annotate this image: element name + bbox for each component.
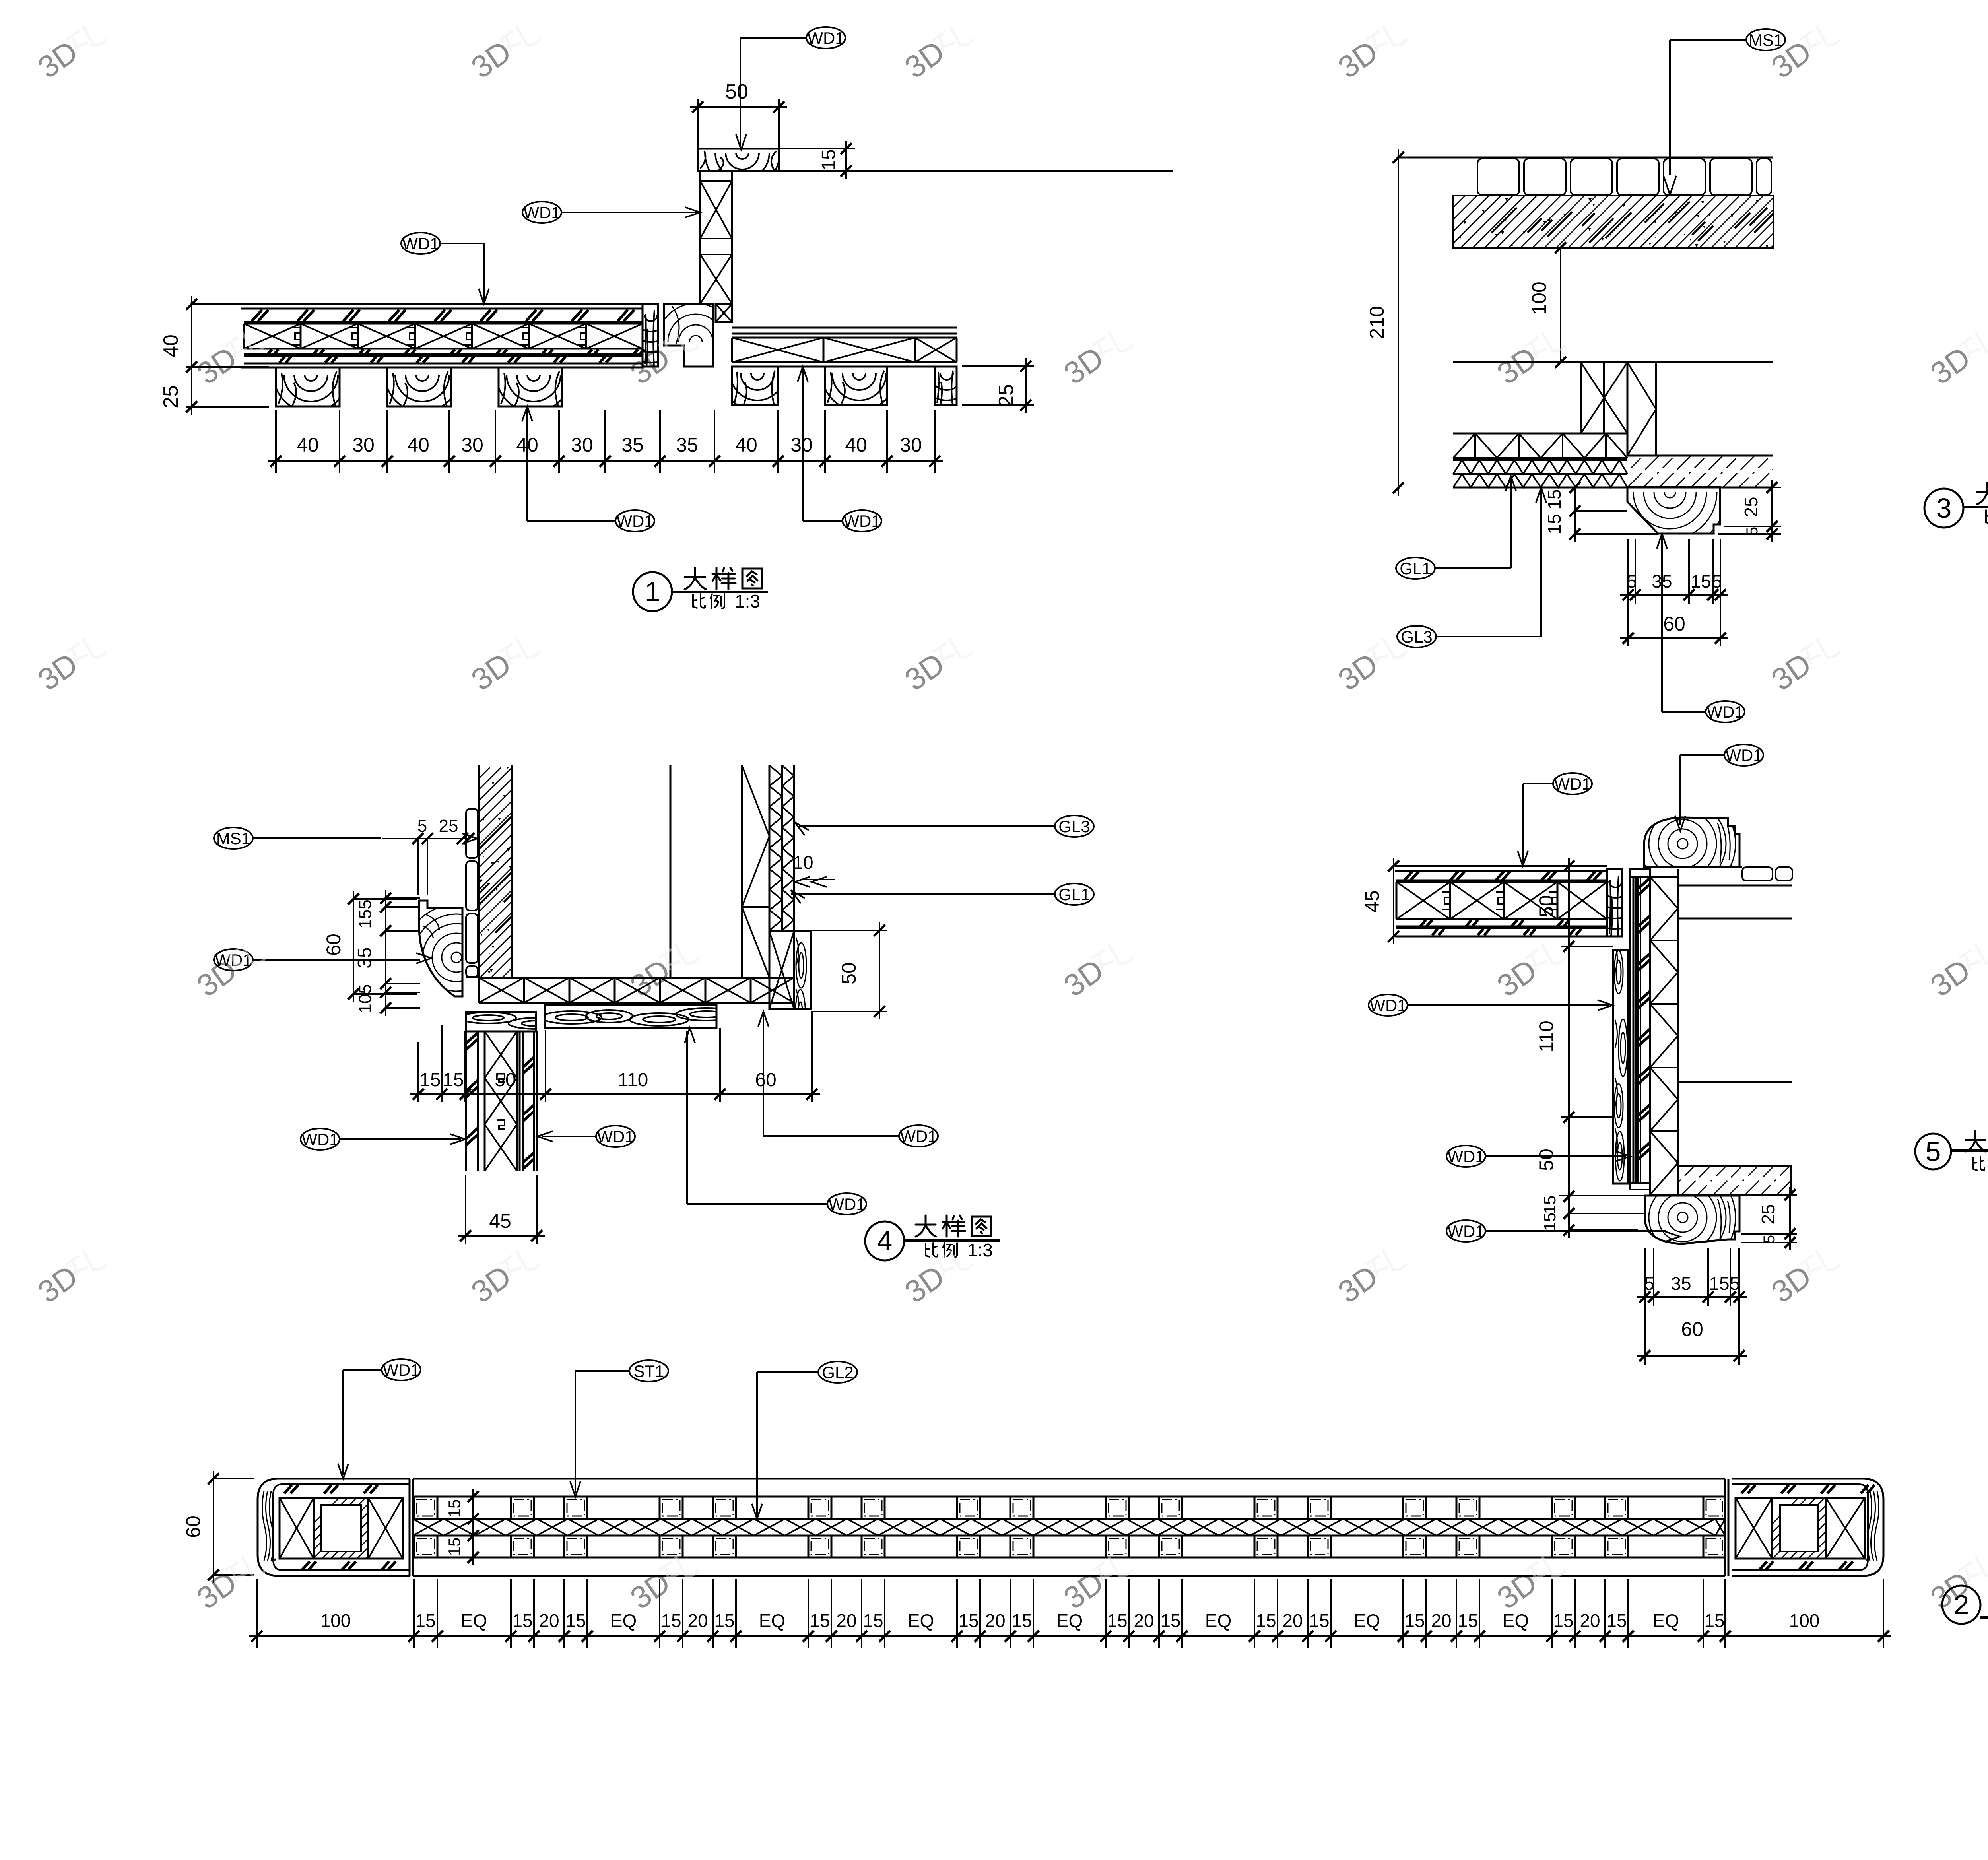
svg-text:15: 15 [1160,1610,1180,1631]
svg-text:25: 25 [159,385,182,408]
svg-text:35: 35 [354,947,375,968]
tile strip MS1 [466,809,478,858]
title circle 1 [633,572,672,611]
svg-text:EQ: EQ [1205,1610,1231,1631]
svg-text:EQ: EQ [461,1610,487,1631]
svg-text:15: 15 [661,1610,681,1631]
svg-text:40: 40 [159,334,182,357]
svg-text:4: 4 [877,1225,893,1256]
svg-text:WD1: WD1 [1706,703,1743,721]
label WD1 batten [615,510,654,532]
vertical post WD1 [699,171,701,304]
svg-text:WD1: WD1 [1554,775,1591,793]
svg-text:40: 40 [735,434,757,456]
svg-text:30: 30 [461,434,483,456]
svg-text:60: 60 [1663,613,1685,635]
label WD1 cap [806,27,845,49]
svg-text:WD1: WD1 [382,1361,419,1379]
svg-text:50: 50 [1535,895,1557,917]
svg-text:50: 50 [725,80,748,103]
svg-text:WD1: WD1 [597,1127,634,1146]
label WD1 floor [401,233,440,254]
svg-text:15: 15 [1309,1610,1329,1631]
svg-text:100: 100 [1789,1610,1820,1631]
svg-text:5: 5 [1627,571,1637,592]
left lower boards [268,349,644,354]
svg-text:60: 60 [755,1070,776,1091]
svg-text:30: 30 [790,434,813,456]
label WD1 post [522,202,561,223]
X blocking box [1581,362,1627,433]
svg-text:WD1: WD1 [807,29,844,47]
svg-text:110: 110 [618,1070,648,1091]
svg-text:WD1: WD1 [828,1195,865,1213]
svg-text:20: 20 [539,1610,559,1631]
right blocking X band [732,337,957,339]
stone base band [1679,1166,1791,1195]
ceiling tiles [1742,867,1773,881]
svg-text:15: 15 [1704,1610,1724,1631]
left blocking X band [244,323,643,325]
label WD1 molding top [1724,744,1763,766]
dim 15 15 rows [472,1489,474,1565]
svg-text:5: 5 [1743,527,1761,536]
label WD1 shelf [827,1193,866,1215]
svg-text:10: 10 [793,852,813,873]
svg-text:50: 50 [1535,1149,1557,1171]
framing column right [741,765,743,977]
post base X block [716,304,732,322]
dim 25 5 right [1741,1194,1797,1196]
title circle 4 [865,1221,904,1260]
svg-text:GL3: GL3 [1058,817,1090,836]
mortar bed hatch [1453,196,1773,248]
svg-text:15: 15 [863,1610,883,1631]
svg-text:20: 20 [1580,1610,1600,1631]
svg-text:100: 100 [320,1610,351,1631]
glass core GL2 [413,1518,1725,1520]
title text 1 [685,576,705,578]
svg-text:WD1: WD1 [1369,996,1406,1015]
dim 40 left [192,303,241,305]
title circle 2 [1942,1586,1980,1624]
svg-text:WD1: WD1 [900,1127,937,1146]
svg-text:50: 50 [495,1070,516,1091]
svg-text:25: 25 [439,816,458,836]
svg-text:EQ: EQ [908,1610,934,1631]
dim 50 right [811,930,887,931]
right assembly top lines [732,327,957,329]
svg-text:WD1: WD1 [843,512,880,530]
svg-text:155: 155 [355,899,375,928]
batten support line [241,367,643,369]
left cap blocking X 2 [368,1498,403,1559]
dim 50 cap [697,99,699,149]
svg-text:15: 15 [1404,1610,1425,1631]
label WD1 molding [214,949,253,971]
separator [409,1479,411,1576]
glass felt strip [1640,877,1641,1183]
svg-text:15: 15 [1691,571,1711,592]
svg-text:60: 60 [1681,1318,1703,1340]
dim 210 [1398,149,1399,496]
svg-text:EQ: EQ [1653,1610,1679,1631]
bottom dim chain 15 15 50 110 60 [417,1042,419,1102]
svg-text:40: 40 [516,434,538,456]
label MS1 [214,827,253,849]
svg-text:15: 15 [1544,514,1565,534]
label WD1 wall left [301,1128,340,1150]
right cap blocking X 2 [1826,1498,1865,1559]
svg-text:50: 50 [838,962,860,984]
svg-text:5: 5 [1761,1235,1778,1244]
svg-text:GL2: GL2 [822,1363,853,1382]
left cap blocking X [280,1498,314,1559]
svg-text:15: 15 [1540,1213,1559,1231]
svg-text:15: 15 [810,1610,830,1631]
dim 60 [1627,604,1629,646]
right cap blocking X [1736,1498,1772,1559]
upper line [1453,361,1773,363]
dim 10 [802,879,835,880]
svg-text:40: 40 [407,434,429,456]
bottom dimension chain [256,1579,258,1648]
masonry wall [478,765,480,977]
svg-text:3: 3 [1936,493,1952,524]
stud column [1649,869,1651,1195]
svg-text:30: 30 [352,434,375,456]
svg-text:WD1: WD1 [523,203,560,222]
rail body lines [413,1478,1725,1480]
left arm lower boards [1420,920,1569,926]
dim 5 25 [382,838,470,839]
svg-text:60: 60 [182,1516,204,1538]
svg-text:60: 60 [322,934,345,956]
svg-text:EQ: EQ [759,1610,785,1631]
title text 5 [1966,1139,1985,1141]
svg-text:EQ: EQ [1354,1610,1380,1631]
dim 15 cap [779,148,855,149]
label GL1 [1055,883,1094,905]
label WD1 base [1446,1220,1485,1242]
svg-text:5: 5 [1712,571,1722,592]
left arm top board [1395,865,1607,867]
svg-text:20: 20 [1431,1610,1451,1631]
svg-text:WD1: WD1 [402,234,439,253]
svg-text:25: 25 [995,384,1018,407]
svg-text:5: 5 [1644,1273,1654,1294]
label WD1 panel [1369,994,1408,1016]
svg-text:1:3: 1:3 [967,1240,993,1260]
dim 25 5 right of block [1724,487,1781,488]
svg-text:5: 5 [417,816,427,836]
svg-text:15: 15 [818,149,839,170]
svg-text:EQ: EQ [1503,1610,1529,1631]
label WD1 wall right [596,1126,635,1147]
bottom blocking band [479,977,794,979]
watermark pattern (decorative, faint) [31,16,110,85]
label WD1 strip [1446,1146,1485,1167]
lower wall panels WD1 [465,1031,467,1171]
steel tube right ST1 [1772,1498,1826,1559]
stone band [1627,455,1773,457]
bottom dimension chain [275,410,277,473]
label GL3 [1397,626,1436,647]
dim 100 [1560,248,1561,362]
svg-text:WD1: WD1 [1725,746,1762,765]
svg-text:15: 15 [445,1499,464,1518]
truss band [1453,433,1627,435]
svg-text:35: 35 [1671,1273,1691,1294]
svg-text:40: 40 [297,434,319,456]
dim 60 [1644,1306,1646,1365]
svg-text:EQ: EQ [610,1610,637,1631]
svg-text:20: 20 [1134,1610,1154,1631]
svg-text:MS1: MS1 [1749,31,1783,49]
svg-text:20: 20 [687,1610,708,1631]
right wood end cap WD1 [1732,1479,1883,1576]
svg-text:WD1: WD1 [301,1130,338,1149]
svg-text:1:3: 1:3 [735,591,760,612]
left plywood top board WD1 [241,303,643,305]
svg-text:20: 20 [1282,1610,1303,1631]
label MS1 [1746,29,1785,50]
gypsum board GL3 [1453,473,1627,475]
svg-text:15: 15 [1458,1610,1478,1631]
svg-text:15: 15 [1107,1610,1127,1631]
svg-text:105: 105 [355,984,375,1013]
svg-text:15: 15 [1544,489,1565,509]
tile row MS1 [1477,159,1519,195]
svg-text:15: 15 [445,1538,464,1556]
label WD1 [382,1359,421,1380]
label ST1 [629,1360,668,1382]
dim 15 15 left of block [1574,487,1576,542]
svg-text:15: 15 [714,1610,734,1631]
svg-text:15: 15 [443,1070,464,1091]
svg-text:35: 35 [676,434,698,456]
svg-text:15: 15 [1540,1196,1559,1214]
bottom dims 5 35 15 5 [1627,539,1629,604]
svg-text:1: 1 [645,576,660,607]
label WD1 top [1553,773,1592,794]
ceiling line [732,170,1173,172]
svg-text:15: 15 [512,1610,532,1631]
svg-text:15: 15 [1011,1610,1032,1631]
svg-text:15: 15 [419,1070,441,1091]
gypsum strips GL [769,765,771,930]
bottom dims 5 35 15 5 [1644,1248,1646,1306]
furring strip [1630,869,1650,877]
steel tube left ST1 [314,1498,368,1559]
svg-text:35: 35 [621,434,644,456]
svg-text:15: 15 [1606,1610,1627,1631]
label GL1 [1396,557,1435,579]
svg-text:5: 5 [1926,1136,1941,1167]
svg-text:25: 25 [1741,497,1761,517]
label GL2 [818,1361,857,1383]
svg-text:WD1: WD1 [1447,1147,1484,1166]
datum line [1397,157,1773,159]
label GL3 [1055,815,1094,837]
label WD1 right assembly [843,510,881,532]
svg-text:15: 15 [415,1610,435,1631]
svg-text:GL1: GL1 [1058,885,1090,904]
X block under gypsum [769,931,794,1009]
left wood end cap WD1 [258,1479,410,1576]
dim 45 [465,1175,466,1244]
svg-text:ST1: ST1 [633,1362,664,1380]
label WD1 blocking [899,1125,938,1147]
svg-text:20: 20 [985,1610,1005,1631]
framing column [1627,362,1629,456]
svg-text:20: 20 [836,1610,856,1631]
svg-text:110: 110 [1535,1021,1557,1052]
svg-text:GL1: GL1 [1400,559,1431,578]
bottom line [1453,487,1773,489]
separator right [1724,1479,1726,1576]
wall face lines [1678,918,1792,920]
svg-text:15: 15 [565,1610,586,1631]
svg-text:45: 45 [1361,890,1383,913]
svg-text:25: 25 [1758,1204,1778,1224]
dim 45 [1393,858,1394,944]
svg-text:WD1: WD1 [616,512,653,530]
title text 4 [916,1224,936,1226]
svg-text:15: 15 [1709,1273,1729,1294]
svg-text:40: 40 [845,434,867,456]
gypsum board GL1 [1453,459,1627,461]
svg-text:15: 15 [1256,1610,1276,1631]
svg-text:15: 15 [1553,1610,1573,1631]
title circle 3 [1924,489,1963,528]
title circle 5 [1915,1134,1951,1169]
svg-text:MS1: MS1 [216,829,250,848]
svg-text:GL3: GL3 [1401,627,1432,646]
svg-text:45: 45 [489,1210,511,1232]
dim 60 left [213,1471,214,1583]
svg-text:WD1: WD1 [1447,1222,1484,1241]
wood blocks rows [414,1497,437,1519]
svg-text:30: 30 [900,434,922,456]
dim 60 left [353,891,354,1002]
label WD1 [1706,701,1745,722]
dim 25 right [962,365,1034,367]
dim chain 155/35/105 [385,890,386,1016]
dim chain 50 110 50 15 15 [1568,858,1570,1238]
svg-text:210: 210 [1366,306,1388,339]
svg-text:5: 5 [1730,1273,1740,1294]
svg-text:30: 30 [571,434,593,456]
left arm blocking [1396,881,1607,883]
svg-text:15: 15 [958,1610,978,1631]
svg-text:100: 100 [1528,282,1550,315]
niche right wall edge [670,765,672,978]
title text 3 [1977,491,1988,493]
